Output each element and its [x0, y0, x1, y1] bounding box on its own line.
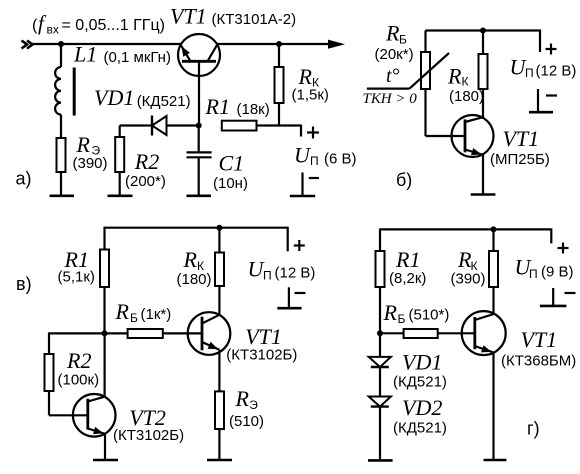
svg-text:(180): (180): [177, 271, 212, 288]
svg-text:(0,1 мкГн): (0,1 мкГн): [104, 49, 171, 66]
ground RЭ v: [207, 459, 232, 462]
svg-text:L1: L1: [73, 42, 97, 67]
svg-text:К: К: [462, 75, 469, 89]
label RК (180) b: [447, 64, 484, 106]
label RК (1,5к): [292, 64, 329, 104]
svg-text:б): б): [396, 170, 412, 190]
inductor L1: [55, 67, 74, 116]
resistor RЭ: [57, 138, 66, 172]
label R1 (5,1к) v: [58, 247, 95, 286]
transistor VT1 v: [188, 312, 231, 355]
label RБ (20к*): [375, 21, 414, 64]
transistor VT2: [73, 394, 116, 437]
svg-text:R: R: [76, 132, 91, 157]
svg-text:П: П: [310, 154, 319, 168]
label VT1 v: [226, 324, 297, 364]
input arrow: [22, 41, 33, 49]
label VT1: [170, 4, 296, 29]
ground VT1 g: [484, 459, 507, 462]
resistor R2: [115, 126, 124, 196]
wire emitter VT1 v: [218, 350, 220, 392]
label RК (390) g: [451, 247, 486, 288]
svg-text:(КТ368БМ): (КТ368БМ): [501, 353, 576, 370]
diode VD1 g: [369, 357, 391, 367]
output arrowhead: [328, 40, 345, 49]
resistor RБ v: [105, 329, 203, 338]
wire: [60, 44, 62, 67]
label R2 (200*): [125, 149, 166, 190]
wire: [379, 407, 381, 461]
svg-text:(1,5к): (1,5к): [292, 87, 329, 104]
label RЭ (390): [73, 132, 108, 172]
svg-text:R: R: [385, 21, 400, 46]
svg-text:(5,1к): (5,1к): [58, 269, 95, 286]
svg-text:П: П: [263, 269, 272, 283]
svg-text:П: П: [529, 267, 538, 281]
svg-text:ТКН > 0: ТКН > 0: [363, 91, 418, 107]
label UП (12 В): [510, 55, 577, 81]
svg-text:(9 В): (9 В): [541, 264, 574, 281]
svg-text:(КТ3102Б): (КТ3102Б): [226, 347, 297, 364]
svg-text:(510*): (510*): [409, 307, 450, 324]
label VD1: [94, 85, 191, 110]
svg-text:(1к*): (1к*): [141, 306, 172, 323]
label C1 (10н): [213, 151, 248, 193]
svg-text:= 0,05...1 ГГц): = 0,05...1 ГГц): [62, 17, 165, 34]
wire power a: [279, 125, 301, 137]
svg-text:(390): (390): [73, 155, 108, 172]
svg-text:(МП25Б): (МП25Б): [490, 151, 550, 168]
ground VD2 g: [368, 459, 393, 462]
node collector junction: [276, 41, 282, 47]
svg-text:VD2: VD2: [402, 395, 442, 420]
svg-text:VD1: VD1: [402, 350, 442, 375]
top rail v: [105, 227, 288, 229]
label VT1 b: [490, 126, 550, 168]
wire: [379, 228, 381, 251]
svg-text:г): г): [527, 419, 540, 439]
label VD1 g: [393, 350, 447, 391]
svg-text:(КД521): (КД521): [393, 374, 447, 391]
plus b: [546, 44, 557, 55]
wire: [379, 287, 381, 333]
wire diode branch: [379, 333, 381, 357]
svg-text:(12 В): (12 В): [536, 63, 577, 80]
diode VD2 g: [369, 397, 391, 407]
top rail g: [380, 228, 551, 230]
label VT2: [113, 405, 184, 444]
wire: [278, 44, 280, 67]
label L1: [73, 42, 171, 67]
svg-text:Б: Б: [399, 33, 407, 47]
svg-text:R: R: [235, 386, 250, 411]
ground power v: [277, 287, 305, 308]
wire: [424, 31, 426, 53]
svg-text:VT1: VT1: [503, 126, 540, 151]
svg-text:R: R: [115, 299, 130, 324]
svg-text:Б: Б: [130, 311, 138, 325]
label UП (6 В): [294, 143, 357, 169]
label RБ (1к*) v: [115, 299, 172, 325]
label R2 (100к) v: [58, 348, 100, 389]
ground R2: [108, 195, 133, 198]
node base v: [102, 330, 108, 336]
wire R2 branch: [49, 332, 105, 354]
resistor RБ g: [380, 329, 475, 338]
ground power a: [290, 173, 319, 197]
label RК (180) v: [177, 247, 212, 288]
resistor RК g: [489, 251, 498, 287]
svg-text:(180): (180): [449, 88, 484, 105]
wire: [482, 31, 484, 55]
label R1 (8,2к) g: [389, 247, 426, 287]
capacitor C1: [187, 126, 212, 196]
label UП (12 В) v: [248, 257, 316, 283]
svg-text:Э: Э: [249, 398, 258, 412]
wire emitter VT2: [104, 434, 106, 460]
label VT1 g: [501, 327, 576, 370]
transistor VT1 g: [462, 311, 506, 355]
label VD2 g: [393, 395, 447, 437]
wire emitter g: [492, 353, 494, 461]
svg-text:а): а): [16, 169, 32, 189]
label RБ (510*) g: [383, 300, 450, 326]
wire: [278, 103, 280, 126]
plus g: [558, 243, 569, 254]
wire emitter b: [482, 155, 484, 195]
resistor R1: [222, 121, 279, 131]
svg-text:(КТ3101А-2): (КТ3101А-2): [212, 11, 297, 28]
wire output: [217, 43, 329, 45]
wire power v: [287, 227, 289, 252]
wire collector VT1 v: [218, 286, 220, 315]
svg-text:(8,2к): (8,2к): [389, 270, 426, 287]
svg-text:вх: вх: [47, 23, 59, 37]
node base g: [377, 330, 383, 336]
wire: [103, 287, 105, 333]
wire base b: [426, 135, 466, 137]
svg-text:VT1: VT1: [170, 4, 207, 29]
plus a: [307, 127, 319, 139]
svg-text:(200*): (200*): [125, 173, 166, 190]
wire collector g: [492, 287, 494, 314]
svg-text:VD1: VD1: [94, 85, 134, 110]
label R1 (18к): [205, 94, 270, 119]
resistor RК b: [479, 54, 488, 89]
wire power b: [539, 30, 541, 53]
svg-text:(12 В): (12 В): [275, 265, 316, 282]
wire power g: [550, 228, 552, 243]
svg-text:Б: Б: [398, 312, 406, 326]
resistor R1 g: [376, 251, 385, 287]
transistor VT1 b: [452, 115, 494, 157]
wire: [60, 115, 62, 138]
ground VT2: [93, 459, 118, 462]
label UП (9 В) g: [515, 255, 574, 282]
resistor R2 v: [45, 354, 54, 391]
svg-text:VT1: VT1: [245, 324, 282, 349]
svg-text:t°: t°: [386, 65, 400, 87]
ground power b: [529, 89, 557, 112]
wire input: [31, 43, 181, 45]
svg-text:R2: R2: [134, 149, 159, 174]
svg-text:(18к): (18к): [237, 101, 270, 118]
svg-text:(390): (390): [451, 271, 486, 288]
wire: [218, 429, 220, 460]
resistor RК v: [215, 253, 224, 287]
top rail b: [426, 29, 541, 31]
diode VD1: [152, 116, 199, 136]
svg-text:(КД521): (КД521): [137, 93, 191, 110]
svg-text:(КТ3102Б): (КТ3102Б): [113, 427, 184, 444]
node rail b: [480, 28, 486, 34]
wire: [424, 89, 426, 136]
node rail g: [491, 226, 497, 232]
svg-text:(10н): (10н): [213, 175, 248, 192]
label f input: [32, 11, 165, 37]
resistor R1 v: [100, 250, 109, 288]
resistor RБ thermistor: [367, 52, 449, 89]
plus v: [294, 240, 305, 251]
svg-text:П: П: [525, 66, 534, 80]
label RЭ (510) v: [229, 386, 264, 430]
svg-text:R: R: [298, 64, 313, 89]
svg-text:R1: R1: [205, 94, 230, 119]
svg-text:R2: R2: [66, 348, 91, 373]
node base junction: [196, 123, 202, 129]
node rail v: [216, 225, 222, 231]
svg-text:VT1: VT1: [521, 327, 558, 352]
svg-text:R: R: [447, 64, 462, 89]
svg-text:(20к*): (20к*): [375, 46, 414, 63]
wire diode row: [120, 124, 152, 126]
svg-text:R: R: [183, 247, 198, 272]
svg-text:(КД521): (КД521): [393, 420, 447, 437]
wire: [103, 227, 105, 250]
wire: [218, 228, 220, 253]
svg-text:R1: R1: [395, 247, 420, 272]
wire: [379, 367, 381, 397]
ground power g: [540, 288, 576, 306]
ground b: [471, 193, 496, 196]
ground: [50, 195, 75, 198]
wire: [49, 391, 88, 415]
node input junction: [58, 41, 64, 47]
ground C1: [187, 195, 212, 198]
svg-text:(6 В): (6 В): [324, 151, 357, 168]
wire collector VT2: [103, 333, 105, 396]
svg-text:в): в): [16, 274, 32, 294]
svg-text:(100к): (100к): [58, 372, 100, 389]
wire: [60, 172, 62, 196]
wire: [492, 229, 494, 251]
resistor RК: [275, 67, 284, 103]
svg-text:C1: C1: [219, 151, 245, 176]
svg-text:R: R: [383, 300, 398, 325]
transistor VT1: [178, 34, 220, 76]
wire collector b: [482, 89, 484, 117]
wire base down: [198, 61, 200, 125]
svg-text:(510): (510): [229, 413, 264, 430]
resistor RЭ v: [215, 391, 224, 429]
